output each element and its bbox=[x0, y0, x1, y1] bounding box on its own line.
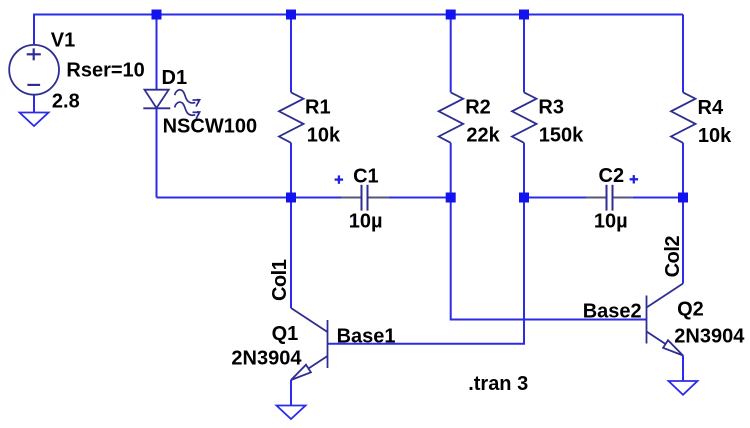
ground (V1) bbox=[20, 113, 49, 127]
D1 light arrow 2 bbox=[175, 102, 201, 119]
resistor R4 bbox=[671, 92, 696, 142]
LED D1 bbox=[143, 90, 170, 109]
svg-text:10µ: 10µ bbox=[349, 210, 383, 232]
svg-text:10k: 10k bbox=[307, 124, 341, 146]
wire D1 column top bbox=[156, 15, 158, 90]
svg-text:22k: 22k bbox=[466, 124, 500, 146]
resistor R3 bbox=[512, 92, 537, 142]
wire R2 column top bbox=[450, 15, 452, 93]
svg-text:R1: R1 bbox=[305, 96, 331, 118]
wire R3 column top bbox=[523, 15, 525, 93]
wire R1 column top bbox=[290, 15, 292, 93]
svg-text:Rser=10: Rser=10 bbox=[66, 59, 144, 81]
capacitor C1 bbox=[362, 185, 368, 211]
svg-text:Base2: Base2 bbox=[583, 301, 642, 323]
svg-text:150k: 150k bbox=[539, 124, 584, 146]
wire Col2 (Q2 collector) bbox=[682, 198, 684, 284]
transistor Q2 bbox=[647, 284, 684, 356]
node junction top R2 bbox=[446, 10, 456, 20]
resistor R2 bbox=[439, 92, 464, 142]
svg-text:Base1: Base1 bbox=[337, 326, 396, 348]
svg-text:R4: R4 bbox=[698, 97, 724, 119]
svg-text:C1: C1 bbox=[353, 166, 379, 188]
C1 plus polarity bbox=[335, 175, 344, 183]
svg-text:Col1: Col1 bbox=[269, 259, 291, 301]
svg-text:.tran 3: .tran 3 bbox=[468, 373, 528, 395]
node junction mid R3 bbox=[519, 193, 529, 203]
wire D1 column bottom bbox=[156, 108, 158, 197]
wire mid-right rail bbox=[524, 197, 683, 199]
node junction mid R4 bbox=[678, 193, 688, 203]
node junction mid R2 bbox=[446, 193, 456, 203]
svg-text:Q2: Q2 bbox=[677, 299, 704, 321]
svg-text:10k: 10k bbox=[698, 125, 732, 147]
svg-text:R2: R2 bbox=[465, 96, 491, 118]
ground (Q1) bbox=[277, 406, 306, 420]
wire top rail bbox=[34, 15, 683, 46]
svg-text:2N3904: 2N3904 bbox=[231, 347, 302, 369]
svg-text:C2: C2 bbox=[599, 165, 625, 187]
node junction top D1 bbox=[152, 10, 162, 20]
capacitor C2 bbox=[607, 185, 613, 211]
svg-text:Q1: Q1 bbox=[272, 323, 299, 345]
svg-text:NSCW100: NSCW100 bbox=[163, 116, 257, 138]
wire R3 bottom to Q1 base bbox=[328, 198, 525, 344]
svg-text:D1: D1 bbox=[162, 67, 188, 89]
D1 light arrow 1 bbox=[175, 90, 201, 107]
node junction top R1 bbox=[286, 10, 296, 20]
transistor Q1 bbox=[291, 308, 328, 380]
voltage source V1 bbox=[9, 45, 59, 113]
svg-text:R3: R3 bbox=[538, 96, 564, 118]
node junction top R3 bbox=[519, 10, 529, 20]
wire R3 bottom bbox=[523, 143, 525, 198]
wire Q1 emitter bbox=[290, 380, 292, 406]
svg-text:10µ: 10µ bbox=[594, 210, 628, 232]
node junction mid R1 bbox=[286, 193, 296, 203]
wire R2 bottom bbox=[450, 143, 452, 198]
wire R2 bottom to Q2 base bbox=[451, 198, 647, 320]
svg-text:2.8: 2.8 bbox=[52, 91, 80, 113]
wire R4 bottom bbox=[682, 143, 684, 198]
wire Q2 emitter bbox=[682, 356, 684, 382]
svg-text:2N3904: 2N3904 bbox=[674, 326, 745, 348]
svg-text:Col2: Col2 bbox=[662, 236, 684, 278]
svg-text:V1: V1 bbox=[51, 29, 75, 51]
wire R4 column top bbox=[682, 15, 684, 93]
wire Col1 (Q1 collector) bbox=[290, 198, 292, 309]
wire R1 bottom bbox=[290, 143, 292, 198]
C2 plus polarity bbox=[630, 175, 639, 183]
resistor R1 bbox=[279, 92, 304, 142]
wire mid-left rail bbox=[157, 197, 451, 199]
ground (Q2) bbox=[669, 381, 698, 395]
